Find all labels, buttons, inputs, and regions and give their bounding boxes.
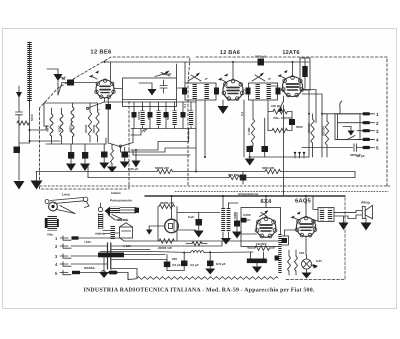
label tube V5 6AQ5 <box>295 198 312 205</box>
trimmer detail box <box>120 223 133 238</box>
supply wire row C <box>100 250 150 252</box>
oscillator box T0 <box>123 64 177 107</box>
T2 capacitor right <box>276 88 281 95</box>
tuning gang dashed enclosure <box>40 100 130 189</box>
resistor bar R6 <box>173 102 177 129</box>
T1 capacitor left <box>182 88 187 95</box>
connector pin 5 left <box>55 270 101 276</box>
decoupling cap mid C20 <box>99 144 109 169</box>
svg-text:25000 1W: 25000 1W <box>158 246 172 250</box>
resistor R10 tall <box>311 114 314 157</box>
filter choke L5 <box>191 251 254 253</box>
rectifier output resistor R15 <box>248 246 274 251</box>
svg-text:0,1: 0,1 <box>240 111 244 116</box>
ground left <box>14 181 25 190</box>
wire V4 top <box>265 196 267 208</box>
wire bundle block <box>98 253 165 258</box>
AVC arrow A1 <box>47 69 63 95</box>
dashed link label to V1 <box>40 57 191 186</box>
label tube V4 6X4 <box>261 198 272 205</box>
resistor R2 vertical <box>88 108 91 142</box>
terminal plug 2 <box>338 114 380 126</box>
V3 cathode arrows <box>278 70 288 79</box>
wire right rail x322 <box>302 94 322 157</box>
ground bundle bottom <box>99 257 184 278</box>
capacitor C10 on terminal 5 <box>302 144 363 151</box>
ground under C3 <box>66 164 76 172</box>
resistor R1 horizontal <box>17 121 30 125</box>
svg-text:100 pF: 100 pF <box>271 104 281 108</box>
wire T1 left down <box>196 100 205 172</box>
svg-text:VIBR.: VIBR. <box>233 211 237 219</box>
wire V5 top <box>285 196 307 255</box>
wire bottom right bus <box>128 196 345 280</box>
bus AVC y171.5 <box>36 169 355 173</box>
V2 cathode arrows <box>218 74 228 83</box>
output transformer T4 <box>313 196 334 227</box>
ground under C4 <box>80 164 90 172</box>
filter cap C19 <box>205 253 215 275</box>
wire x244 drop <box>243 100 245 157</box>
caption title <box>83 287 314 294</box>
buffer capacitor C13 <box>194 213 204 238</box>
connector pin 2 left <box>55 244 107 249</box>
svg-text:2: 2 <box>376 121 379 126</box>
V5 cathode arrows <box>291 212 301 221</box>
dashed chassis line y186 <box>40 185 390 187</box>
svg-text:6,3V: 6,3V <box>316 259 322 263</box>
vibrator V6 <box>165 219 179 233</box>
svg-text:Potenziometro: Potenziometro <box>110 199 132 203</box>
ground main left <box>31 172 43 190</box>
decoupling cap mid C22 <box>120 147 130 168</box>
capacitor bank C31 <box>148 102 153 129</box>
resistor R20 horizontal <box>268 118 292 133</box>
wire V1 plate to T1 <box>114 62 185 89</box>
wire V3 right rail <box>293 62 317 157</box>
svg-text:8 μF: 8 μF <box>188 215 194 219</box>
detector filter box <box>300 58 310 90</box>
resistor R12 vertical <box>250 100 255 146</box>
vibrator resistor upper R13 <box>159 204 174 208</box>
label tube V2 12 BA6 <box>220 50 240 56</box>
svg-text:0,005: 0,005 <box>243 213 251 217</box>
osc arrow <box>139 83 157 96</box>
wire antenna to tuning <box>30 101 61 143</box>
svg-text:5000 pF: 5000 pF <box>255 55 266 59</box>
volume potentiometer R9 <box>268 102 292 114</box>
padder capacitor C3 <box>68 144 74 163</box>
tube V2 12BA6 envelope <box>222 79 244 100</box>
capacitor C2 <box>14 143 30 153</box>
T1 capacitor right <box>214 88 219 95</box>
svg-text:6AQ5: 6AQ5 <box>295 198 312 205</box>
capacitor bank C33 <box>181 102 186 129</box>
svg-text:5000 2W: 5000 2W <box>262 166 274 170</box>
svg-text:0,5 μF: 0,5 μF <box>172 263 181 267</box>
connector pin 1 left <box>55 236 120 241</box>
svg-text:12AT6: 12AT6 <box>282 50 299 56</box>
volume control part <box>45 216 59 237</box>
tube V4 6X4 envelope <box>255 217 277 238</box>
tube V1 12BE6 envelope <box>95 79 115 99</box>
svg-text:bobine: bobine <box>111 191 121 195</box>
capacitor C23 <box>240 172 247 185</box>
decoupling resistor mid R17 <box>107 144 117 173</box>
wire V2 top <box>232 62 234 80</box>
tuning lever mechanism <box>45 197 89 214</box>
capacitor bank C32 <box>164 102 169 129</box>
plunger rod <box>95 203 105 236</box>
wire tuning bottom rail <box>44 103 106 144</box>
svg-text:0,1: 0,1 <box>183 103 187 108</box>
wire x283 audio drop <box>283 105 285 196</box>
dashed top chassis line <box>196 57 387 186</box>
label tube V1 12 BE6 <box>90 49 112 56</box>
small resistor R16 <box>186 242 207 246</box>
filter cap C18 <box>181 253 188 271</box>
wire osc bottom rail <box>110 102 196 129</box>
lamp wiper arrow <box>311 264 318 269</box>
tuning coil L2 <box>50 108 53 144</box>
vibrator resistor lower R14 <box>159 239 174 243</box>
ground under T3 <box>221 238 231 245</box>
resistor R3 vertical <box>96 108 99 142</box>
trimmer capacitor C1 <box>16 98 23 180</box>
vibrator frame wires <box>158 196 220 241</box>
connector pin 3 left <box>55 254 107 259</box>
ground left of speaker <box>339 216 349 230</box>
component value labels <box>30 55 365 271</box>
osc capacitor C6 <box>160 80 167 93</box>
arrow on antenna input <box>16 86 22 98</box>
heater dropper coil <box>278 234 281 274</box>
svg-text:3: 3 <box>376 129 379 134</box>
supply wire row B <box>111 241 222 246</box>
wire bank staircase <box>131 129 189 151</box>
capacitor under V1 <box>106 98 112 144</box>
svg-text:0,5 μF: 0,5 μF <box>356 154 365 158</box>
switch enclosure box <box>335 101 360 140</box>
svg-text:INDUSTRIA RADIOTECNICA ITALIAN: INDUSTRIA RADIOTECNICA ITALIANA - Mod. R… <box>83 287 314 294</box>
switch S1 grid <box>86 98 110 110</box>
tuning coil L4 <box>71 103 74 144</box>
svg-text:MASSA: MASSA <box>84 266 96 270</box>
capacitor C12 with wire <box>250 118 309 157</box>
svg-text:1 MΩ: 1 MΩ <box>247 127 251 135</box>
wire V2 plate to T2 <box>243 89 284 91</box>
ground under speaker <box>361 219 372 231</box>
IF transformer T1 <box>185 83 216 100</box>
svg-text:50000: 50000 <box>92 124 96 133</box>
tube V5 6AQ5 envelope <box>295 216 316 237</box>
feedthrough bars <box>108 243 111 269</box>
svg-text:+12V: +12V <box>84 240 91 244</box>
capacitor bank C30 <box>132 102 137 129</box>
svg-text:0,05 μF: 0,05 μF <box>128 167 139 171</box>
terminal plug 3 <box>357 129 379 134</box>
svg-text:5000: 5000 <box>296 125 303 129</box>
trimmer stack <box>103 218 128 240</box>
svg-text:10000: 10000 <box>137 111 141 120</box>
antenna coil L1 <box>27 42 32 108</box>
chassis tick marks <box>143 129 148 132</box>
svg-text:Leva: Leva <box>62 193 70 197</box>
svg-text:5: 5 <box>376 146 379 151</box>
tuning coil L3 <box>60 108 63 144</box>
tube V3 12AT6 envelope <box>282 76 304 97</box>
power transformer T3 <box>221 196 238 238</box>
wire V3 top <box>292 62 294 77</box>
resistor bar R7 <box>189 102 193 129</box>
bias resistor R18 vertical <box>288 250 291 275</box>
lower chassis top line <box>145 195 345 197</box>
IF transformer T2 <box>249 83 278 100</box>
dotted divider y192 <box>175 191 388 193</box>
T1 tuning arrows <box>188 73 201 82</box>
svg-text:0,5 μF: 0,5 μF <box>190 263 199 267</box>
cathode box 6AQ5 <box>281 236 289 245</box>
long heater resistance wire <box>137 277 278 280</box>
label Potenziometro <box>110 199 132 203</box>
resistor R11 tall <box>325 114 328 157</box>
svg-text:4: 4 <box>376 138 379 143</box>
wire switch to AVC <box>121 147 197 155</box>
T2 tuning arrows <box>252 73 265 82</box>
svg-text:12 BA6: 12 BA6 <box>220 50 240 56</box>
label bobine <box>111 191 121 195</box>
antenna trimmer screw drawing <box>105 207 140 222</box>
padding trimmer arrows <box>155 71 170 77</box>
ground arrow mid left <box>146 226 165 235</box>
trimmer box tie wire <box>115 232 120 234</box>
svg-text:1: 1 <box>376 112 379 117</box>
capacitor C21 <box>241 218 251 223</box>
filter cap C17 <box>164 255 171 271</box>
resistor bar R4 <box>141 102 145 129</box>
coupling capacitor C7 <box>233 59 293 66</box>
switch arrow <box>343 127 355 136</box>
capacitor C11 with ground <box>245 146 255 166</box>
V1 cathode arrows <box>89 71 99 80</box>
svg-text:250: 250 <box>172 257 177 261</box>
terminal plug 4 with switch <box>338 123 380 143</box>
V4 tuning arrows <box>260 210 269 216</box>
connector pin 4 left <box>55 262 107 267</box>
detector capacitor C8 <box>271 83 278 86</box>
svg-text:12 BE6: 12 BE6 <box>90 49 112 56</box>
pilot lamp <box>302 255 312 272</box>
svg-text:8+8 μF: 8+8 μF <box>216 262 226 266</box>
svg-text:5000: 5000 <box>30 114 34 121</box>
terminal plug 5 <box>363 146 380 151</box>
capacitor C14 <box>232 213 242 239</box>
label Leva <box>62 193 70 197</box>
svg-text:Vibr.: Vibr. <box>47 233 54 237</box>
label tube V3 12AT6 <box>282 50 299 56</box>
rectifier enclosure box <box>241 208 281 247</box>
supply wire row D <box>111 252 191 260</box>
ground mid bank <box>132 150 141 168</box>
supply wire row A <box>120 238 284 241</box>
terminal plug 1 <box>322 112 379 117</box>
bus B y177.5 <box>88 166 355 180</box>
capacitor C16 <box>275 256 280 261</box>
wire V3 grid network <box>268 96 292 119</box>
svg-text:150: 150 <box>299 251 304 255</box>
resistor bar R5 <box>157 102 161 129</box>
fuse plug detail <box>102 271 128 280</box>
wire V1 plate to top rail <box>105 62 233 81</box>
band switch S2 <box>108 129 133 148</box>
svg-text:20000: 20000 <box>84 124 88 133</box>
T2 capacitor left <box>246 88 251 95</box>
wire to speaker <box>334 211 363 219</box>
label alimentazione <box>238 192 259 196</box>
bias resistor R19 vertical <box>295 250 298 275</box>
ground under V2 <box>218 100 229 114</box>
svg-text:vite reg.: vite reg. <box>117 218 129 222</box>
svg-text:Altop.: Altop. <box>361 201 371 205</box>
ground under lamp <box>302 273 312 279</box>
grid capacitor C5 <box>62 80 97 86</box>
padder capacitor C4 <box>82 144 88 163</box>
heater tap arrows <box>294 152 306 158</box>
filter capacitor block C15 <box>247 252 267 273</box>
speaker <box>361 201 373 219</box>
capacitor C9 <box>289 119 295 130</box>
